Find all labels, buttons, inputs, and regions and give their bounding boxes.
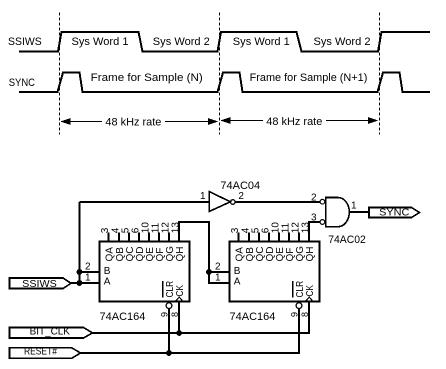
svg-text:2: 2	[311, 193, 317, 204]
U4 CLR bubble (pin 9)	[296, 303, 302, 309]
dimension arrow 48 kHz rate (period 1)	[61, 117, 219, 129]
svg-text:SYNC: SYNC	[379, 208, 409, 219]
wire SSIWS port to node	[71, 282, 80, 284]
U3 clock edge wedge (pin 8)	[175, 297, 183, 301]
junction dot RESET#/U3 CLR	[166, 350, 172, 356]
SYNC waveform	[19, 73, 430, 93]
IC U4 74AC164 body	[230, 242, 320, 302]
NOR gate U2 74AC02 (AND shape w/ input bubbles)	[320, 198, 349, 227]
svg-text:Sys Word 1: Sys Word 1	[72, 36, 129, 48]
U4 top pin numbers	[230, 222, 311, 234]
junction dot SSIWS/B	[77, 269, 83, 275]
U3 CLR label with overline	[163, 281, 176, 298]
svg-text:48 kHz rate: 48 kHz rate	[105, 117, 161, 129]
svg-text:2: 2	[215, 262, 221, 273]
wire U3 CLK drop	[178, 302, 180, 334]
U3 top pin stubs (pins 3,4,5,6,10,11,12)	[109, 232, 169, 241]
U4 output labels QA-QH	[235, 246, 316, 262]
U4 top pin stubs (pins 3,4,5,6,10,11,12)	[239, 232, 299, 241]
U3 CLR bubble (pin 9)	[166, 303, 172, 309]
svg-text:A: A	[234, 277, 241, 288]
svg-text:QH: QH	[305, 247, 316, 262]
wire U4 QH (pin 13) to NOR input 3	[309, 222, 320, 242]
port RESET#	[10, 346, 81, 359]
svg-text:1: 1	[85, 273, 91, 284]
svg-text:1: 1	[200, 191, 206, 202]
wire branch to U4 B	[209, 271, 230, 273]
svg-text:RESET#: RESET#	[24, 346, 57, 358]
svg-text:2: 2	[85, 262, 91, 273]
U3 B input stub	[80, 271, 100, 273]
wire U3 QH (pin 13) to U4 A	[179, 222, 229, 283]
port SYNC	[369, 208, 420, 219]
timeline dashed divider T1	[59, 13, 61, 135]
svg-text:CK: CK	[305, 285, 316, 297]
svg-text:A: A	[104, 277, 111, 288]
svg-text:BIT_CLK: BIT_CLK	[30, 326, 70, 338]
wire inverter output to NOR input 2	[235, 201, 320, 203]
svg-text:1: 1	[215, 273, 221, 284]
svg-text:48 kHz rate: 48 kHz rate	[266, 116, 322, 128]
svg-text:Sys Word 2: Sys Word 2	[153, 36, 210, 48]
svg-text:Sys Word 1: Sys Word 1	[233, 36, 290, 48]
junction dot SSIWS/A	[77, 280, 83, 286]
U3 A input stub	[80, 282, 100, 284]
U3 output labels QA-QH	[105, 246, 186, 262]
svg-text:Frame for Sample (N+1): Frame for Sample (N+1)	[250, 72, 368, 84]
wire to inverter input	[80, 201, 210, 203]
svg-text:Sys Word 2: Sys Word 2	[314, 36, 371, 48]
wire NOR output to SYNC port	[349, 211, 369, 213]
timeline dashed divider T3	[379, 13, 381, 135]
wire RESET# bus to U4 CLR	[81, 309, 300, 354]
wire SSIWS vertical riser	[79, 202, 81, 283]
wire BIT_CLK bus to U4 CLK	[93, 302, 310, 334]
svg-text:Frame for Sample (N): Frame for Sample (N)	[91, 72, 203, 84]
U3 top pin numbers	[100, 222, 181, 234]
svg-text:74AC02: 74AC02	[328, 234, 366, 246]
junction dot BIT_CLK/U3 CLK	[176, 330, 182, 336]
U4 CLR label with overline	[293, 281, 306, 298]
port BIT_CLK	[10, 326, 93, 338]
port SSIWS	[10, 278, 72, 290]
svg-text:1: 1	[351, 201, 357, 212]
SSIWS waveform	[19, 32, 430, 52]
svg-text:74AC164: 74AC164	[230, 311, 276, 323]
svg-text:74AC164: 74AC164	[100, 311, 146, 323]
junction dot U4 B	[206, 269, 212, 275]
svg-text:SSIWS: SSIWS	[8, 36, 42, 48]
svg-text:SSIWS: SSIWS	[22, 278, 57, 290]
timeline dashed divider T2	[219, 13, 221, 135]
svg-text:SYNC: SYNC	[9, 77, 35, 89]
svg-text:2: 2	[238, 191, 244, 202]
U4 clock edge wedge (pin 8)	[305, 297, 313, 301]
IC U3 74AC164 body	[100, 242, 190, 302]
dimension arrow 48 kHz rate (period 2)	[221, 116, 379, 128]
inverter U1 74AC04	[209, 192, 235, 212]
svg-text:QH: QH	[175, 247, 186, 262]
wire U3 CLR drop	[168, 309, 170, 354]
svg-text:CK: CK	[175, 285, 186, 297]
